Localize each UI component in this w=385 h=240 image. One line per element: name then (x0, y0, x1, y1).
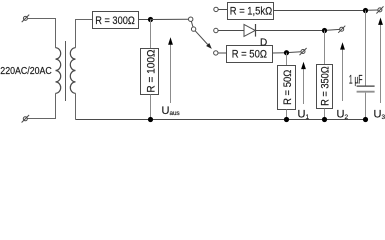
rail junction dot 1 (148, 117, 153, 122)
wire R1k5 to node (274, 10, 366, 12)
wire node down to R100 (150, 20, 152, 49)
capacitor C top plate (357, 85, 375, 87)
svg-text:Uaus: Uaus (162, 105, 180, 117)
terminal X4 (338, 26, 345, 33)
wire secondary bottom to rail (75, 93, 77, 119)
voltage arrow U_aus (168, 37, 173, 103)
switch contact E (to R 50) (214, 51, 218, 55)
switch contact D (to diode) (214, 28, 218, 32)
diode D (244, 24, 256, 37)
wire R300 to node (139, 19, 151, 21)
voltage arrow U3 (378, 18, 383, 104)
wire to terminal X3 (368, 9, 378, 11)
svg-text:R = 350Ω: R = 350Ω (320, 66, 332, 106)
wire primary top (27, 19, 55, 48)
svg-text:R = 300Ω: R = 300Ω (95, 15, 135, 27)
rail junction dot 4 (363, 117, 368, 122)
wire diode to node (256, 30, 325, 32)
transformer core (65, 41, 67, 101)
capacitor C bottom plate (357, 91, 375, 93)
rail junction dot 2 (284, 117, 289, 122)
wire contact D to diode (218, 30, 244, 32)
terminal X2 bottom-left (22, 115, 30, 123)
wire contact C to R1k5 (218, 9, 227, 11)
wire R100 to rail (150, 95, 152, 120)
svg-text:220AC/20AC: 220AC/20AC (0, 66, 52, 77)
wire node down to R350 (324, 31, 326, 65)
node junction dot top (148, 17, 153, 22)
terminal X3 top-right (376, 6, 383, 13)
voltage arrow U2 (340, 42, 345, 101)
wire to terminal X4 (327, 28, 340, 31)
junction dot top right (363, 8, 368, 13)
svg-text:D: D (260, 38, 267, 49)
wire R50h to node (273, 52, 287, 54)
switch link A-B (191, 21, 193, 27)
wire capacitor to rail (365, 93, 367, 120)
resistor R300 box (93, 12, 139, 29)
svg-text:U3: U3 (374, 109, 385, 122)
wire secondary top (76, 20, 93, 48)
wire primary bottom (27, 93, 55, 118)
junction dot diode row (322, 28, 327, 33)
wire node to switch (151, 18, 189, 20)
svg-text:U1: U1 (298, 109, 310, 122)
bottom rail wire (76, 119, 366, 121)
terminal X5 (300, 48, 307, 55)
switch S1 pole contact A (189, 17, 193, 21)
wire node down to capacitor (365, 11, 367, 86)
transformer T1 secondary coil (70, 48, 75, 94)
svg-text:1 µF: 1 µF (349, 73, 363, 87)
voltage arrow U1 (301, 62, 306, 104)
junction dot R50 row (284, 50, 289, 55)
resistor R350 box (317, 65, 333, 109)
wire to terminal X5 (289, 51, 301, 54)
switch S1 pivot contact B (191, 27, 195, 31)
resistor R100 box (141, 49, 159, 95)
terminal X1 top-left (22, 15, 30, 23)
wire R350 to rail (324, 109, 326, 120)
wire R50v to rail (286, 110, 288, 120)
resistor R50v box (278, 66, 296, 110)
switch contact C (to R 1.5k) (214, 7, 218, 11)
transformer T1 primary coil (56, 48, 61, 94)
svg-text:R = 50Ω: R = 50Ω (282, 70, 294, 105)
svg-text:R = 50Ω: R = 50Ω (232, 49, 267, 61)
svg-text:U2: U2 (337, 109, 349, 122)
resistor R50h box (227, 46, 273, 63)
wire contact E to R50h (218, 52, 227, 54)
rail junction dot 3 (322, 117, 327, 122)
switch wiper arrow (195, 31, 212, 49)
resistor R1k5 box (228, 3, 274, 20)
svg-text:R = 1,5kΩ: R = 1,5kΩ (230, 6, 272, 18)
wire node down to R50v (286, 53, 288, 66)
svg-text:R = 100Ω: R = 100Ω (145, 49, 158, 92)
